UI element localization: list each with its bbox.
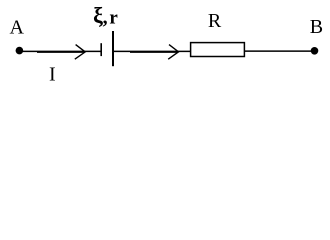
svg-text:B: B xyxy=(310,16,323,38)
battery label comma xyxy=(103,7,108,29)
svg-text:r: r xyxy=(109,8,118,29)
node A label xyxy=(10,17,25,39)
resistor R label xyxy=(208,10,222,32)
node A xyxy=(16,47,24,55)
node B xyxy=(311,47,319,55)
current arrow (right) xyxy=(130,45,179,60)
wire A to cell xyxy=(22,50,101,52)
current label I xyxy=(49,64,56,86)
current arrow I (left) xyxy=(37,45,85,60)
battery cell: short plate (negative) xyxy=(100,43,102,56)
battery label ξ xyxy=(93,3,103,28)
svg-text:,: , xyxy=(103,7,108,29)
node B label xyxy=(310,16,323,38)
wire cell to resistor xyxy=(113,50,191,52)
svg-text:ξ: ξ xyxy=(93,3,103,28)
wire resistor to B xyxy=(244,50,312,52)
resistor R xyxy=(191,43,245,57)
svg-text:R: R xyxy=(208,10,222,32)
svg-text:I: I xyxy=(49,64,56,86)
battery cell: long plate (positive) xyxy=(112,31,114,66)
battery label r xyxy=(109,8,118,29)
svg-text:A: A xyxy=(10,17,25,39)
